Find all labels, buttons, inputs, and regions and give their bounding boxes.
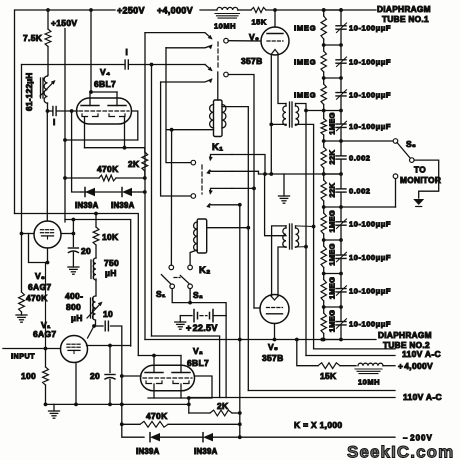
svg-text:+ 22.5V: + 22.5V bbox=[186, 323, 218, 333]
arrowhead contact A arm bbox=[208, 35, 213, 40]
wire cap10 to V2 grid column bbox=[111, 326, 122, 404]
transformer T1 core bbox=[289, 102, 291, 127]
svg-text:357B: 357B bbox=[241, 56, 263, 66]
svg-text:470K: 470K bbox=[146, 411, 168, 421]
resistor 2K (V4 cathode) bbox=[144, 148, 146, 152]
capacitor chain C3 10-100&#956;&#956;F bbox=[340, 78, 342, 92]
capacitor 20 (V1 plate) bbox=[109, 346, 111, 373]
wire T2 primary top wrap bbox=[272, 226, 286, 296]
svg-text:400-: 400- bbox=[65, 291, 83, 301]
tube V6 cathode notch bbox=[271, 50, 279, 55]
wire S1 bottom wrap bbox=[172, 289, 190, 303]
svg-text:15K: 15K bbox=[320, 371, 337, 381]
capacitor chain C7 10-100&#956;&#956;F bbox=[340, 207, 342, 222]
wire V2 plate leads bbox=[153, 356, 155, 373]
wire bottom row y=404.4 bbox=[46, 403, 189, 405]
wire K1 left lead bbox=[166, 129, 213, 131]
resistor chain R9 1MEG bbox=[323, 274, 325, 280]
node 470K right bbox=[238, 422, 242, 426]
wire 110V A-C first pair bbox=[314, 348, 395, 350]
wire V3 grid row left bbox=[22, 233, 35, 235]
wire cap to V4 grid bbox=[57, 110, 78, 112]
ground V1 bottom bbox=[53, 404, 55, 411]
wire K2 right lead bbox=[207, 227, 249, 229]
svg-text:1MEG: 1MEG bbox=[328, 112, 337, 134]
battery cell 1 bbox=[193, 310, 195, 322]
ground below 470K bbox=[21, 312, 23, 315]
svg-text:+150V: +150V bbox=[51, 18, 77, 28]
node INPUT grid bbox=[44, 347, 48, 351]
wire y=219.5 from +150V end to V1 plate riser bbox=[65, 220, 131, 347]
tube V5 bar bbox=[267, 313, 283, 315]
relay K1 winding bumps right bbox=[222, 105, 226, 128]
tube V6 plate bar bbox=[267, 33, 283, 35]
arrow of 400-800uH bbox=[87, 303, 101, 318]
monitor tap circle bbox=[393, 174, 398, 179]
svg-text:SeekIC.com: SeekIC.com bbox=[347, 443, 454, 460]
svg-text:61-122µH: 61-122µH bbox=[25, 72, 34, 111]
svg-text:+ 4,000V: + 4,000V bbox=[398, 361, 433, 371]
relay K1 winding bumps left bbox=[210, 105, 214, 128]
transformer T2 left winding bbox=[285, 226, 287, 228]
wire to cap 10 bbox=[94, 325, 103, 327]
wire -200V rail bbox=[122, 424, 144, 437]
svg-text:IMEG: IMEG bbox=[294, 90, 316, 99]
svg-text:1MEG: 1MEG bbox=[328, 277, 337, 299]
resistor chain R2 IMEG bbox=[323, 45, 325, 51]
svg-text:TUBE NO.1: TUBE NO.1 bbox=[382, 14, 429, 24]
wire INPUT bbox=[3, 348, 61, 350]
nodes on bottom rung rail bbox=[238, 338, 242, 342]
tube V4 right triode bbox=[108, 105, 126, 107]
wire T2 center tap from rung bbox=[265, 174, 286, 236]
inductor 10MH bbox=[217, 7, 238, 10]
wire S-node to battery column bbox=[190, 303, 226, 316]
svg-text:– 200V: – 200V bbox=[403, 434, 433, 443]
ground below V3 plate cap bbox=[72, 253, 74, 268]
wire D4 to right bbox=[213, 436, 395, 438]
tube V5 grid dashed bbox=[267, 307, 283, 309]
wire top-left box horizontal y=64.5 bbox=[22, 64, 125, 66]
resistor chain R10 1MEG bbox=[323, 307, 325, 313]
resistor chain R4 1MEG bbox=[323, 111, 325, 119]
contact B arm from y=64.5 wire bbox=[205, 65, 212, 71]
resistor chain R1 IMEG bbox=[323, 10, 325, 16]
wire V2 grid row bbox=[122, 375, 141, 377]
wire x=226.1 continues to 2K row bbox=[225, 316, 227, 398]
wire rung7 to monitor tap bbox=[341, 206, 396, 208]
wire T1 secondary bottom to x=313.6 bbox=[296, 124, 314, 349]
capacitor 10 bbox=[104, 321, 106, 331]
wire 10MH2 to label bbox=[383, 365, 395, 367]
wire chain rung y=141 bbox=[324, 140, 341, 142]
node x=151.5 on y=64.5 wire bbox=[150, 63, 154, 67]
tube V6 plate lead bbox=[274, 10, 276, 27]
svg-text:DIAPHRAGM: DIAPHRAGM bbox=[378, 330, 432, 340]
svg-text:IMEG: IMEG bbox=[294, 58, 316, 67]
tube V4 grid dashed line bbox=[79, 110, 129, 112]
node rung/V6 lead bbox=[269, 172, 273, 176]
svg-text:6BL7: 6BL7 bbox=[94, 79, 116, 89]
diode D1 IN39A bbox=[81, 191, 86, 193]
wire V4 cathode row y=147.7 bbox=[85, 147, 145, 149]
tube V2 grid dashed line bbox=[143, 377, 192, 379]
svg-text:100: 100 bbox=[21, 371, 36, 381]
svg-text:10-100μμF: 10-100μμF bbox=[349, 24, 391, 33]
node K2 on x=248.3 bbox=[246, 226, 250, 230]
resistor 100 (input) bbox=[43, 367, 49, 385]
contact C fixed circle bbox=[191, 160, 196, 165]
resistor 15K bbox=[251, 7, 266, 12]
node S1 riser on K1 left lead bbox=[170, 128, 174, 132]
svg-text:I: I bbox=[53, 118, 56, 127]
wire monitor tap riser bbox=[395, 179, 397, 208]
capacitor chain C9 10-100&#956;&#956;F bbox=[340, 274, 342, 289]
wire +4000V rail start bbox=[200, 9, 217, 11]
wire T2 secondary top tap bbox=[296, 225, 314, 228]
wire link to K1 coil bbox=[217, 72, 219, 100]
capacitor chain C4 10-100&#956;&#956;F bbox=[340, 111, 342, 124]
node V3 plate bbox=[72, 232, 76, 236]
wire V1 cathode drop bbox=[75, 363, 77, 405]
resistor R 7.5K bbox=[47, 10, 49, 29]
svg-text:IMEG: IMEG bbox=[294, 24, 316, 33]
capacitor chain C1 10-100&#956;&#956;F bbox=[340, 10, 342, 26]
tube V2 6BL7 envelope bbox=[141, 365, 195, 391]
svg-text:K₂: K₂ bbox=[199, 265, 211, 276]
tube V6 357B envelope bbox=[261, 27, 289, 55]
svg-text:10MH: 10MH bbox=[358, 378, 380, 387]
diode D3 IN39A bbox=[150, 433, 160, 441]
wire left border vertical bbox=[14, 10, 16, 214]
svg-text:2K: 2K bbox=[128, 159, 140, 169]
svg-text:10-100μμF: 10-100μμF bbox=[349, 122, 391, 131]
node V2 plate join bbox=[152, 354, 156, 358]
node rung4 extension bbox=[304, 109, 308, 113]
svg-text:S₃: S₃ bbox=[406, 139, 416, 149]
svg-text:22K: 22K bbox=[328, 183, 337, 198]
wire contact-A vertical x=145 bbox=[144, 33, 146, 340]
node contact C arm column bbox=[263, 172, 267, 176]
svg-text:7.5K: 7.5K bbox=[23, 33, 43, 43]
battery link dashes bbox=[200, 315, 207, 317]
svg-text:470K: 470K bbox=[26, 293, 48, 303]
svg-text:6BL7: 6BL7 bbox=[187, 358, 209, 368]
wire chain rung y=45 bbox=[324, 44, 341, 46]
svg-text:IN39A: IN39A bbox=[136, 447, 160, 456]
svg-text:10-100μμF: 10-100μμF bbox=[349, 90, 391, 99]
tube V6 grid dashed bbox=[267, 40, 283, 42]
svg-text:V₆: V₆ bbox=[249, 32, 259, 42]
wire chain rung y=110.5 bbox=[324, 110, 341, 112]
capacitor C1 (I) bbox=[48, 110, 53, 112]
transformer T2 core bbox=[289, 224, 291, 249]
contact D arm bbox=[211, 188, 233, 193]
svg-text:INPUT: INPUT bbox=[11, 352, 35, 361]
resistor 2K (V2) bbox=[189, 412, 210, 414]
wire contact C arm to right column bbox=[232, 155, 265, 175]
tube V3 6AG7 envelope bbox=[34, 221, 61, 248]
tube V2 left triode bbox=[145, 372, 163, 374]
wire contact D arm to V5 column node bbox=[232, 187, 254, 189]
svg-text:IN39A: IN39A bbox=[194, 447, 218, 456]
capacitor chain C6 0.002 bbox=[340, 174, 342, 189]
resistor chain R7 1MEG bbox=[323, 207, 325, 213]
wire S1 riser up bbox=[170, 130, 172, 265]
transformer T1 left winding bbox=[285, 104, 287, 107]
contact A NC arrow bbox=[208, 45, 213, 50]
node T2 sec bottom on x=306 bbox=[304, 245, 308, 249]
capacitor chain C2 10-100&#956;&#956;F bbox=[340, 45, 342, 60]
resistor chain R6 22K bbox=[323, 174, 325, 180]
relay K2 winding bumps bbox=[194, 222, 198, 251]
wire V4 plate-supply row y=140 bbox=[65, 139, 138, 141]
svg-text:1MEG: 1MEG bbox=[328, 310, 337, 332]
node V6 plate feed bbox=[273, 8, 277, 12]
wire V4 right lead bbox=[132, 111, 138, 140]
wire chain rung y=273.5 bbox=[324, 273, 341, 275]
wire K2 bottom-left lead to S2 bbox=[190, 250, 197, 265]
resistor chain R8 1MEG bbox=[323, 240, 325, 246]
arrow of variable inductor L1 bbox=[40, 82, 54, 97]
node chain top resistor column bbox=[322, 8, 326, 12]
wire V5 bottom lead bbox=[274, 324, 276, 340]
resistor 10K bbox=[95, 214, 97, 228]
svg-text:22K: 22K bbox=[328, 150, 337, 165]
svg-text:S₂: S₂ bbox=[193, 290, 203, 300]
svg-text:µH: µH bbox=[71, 313, 83, 323]
tube V3 innards bbox=[40, 229, 43, 231]
contact B fixed circle bbox=[224, 72, 229, 77]
svg-text:DIAPHRAGM: DIAPHRAGM bbox=[377, 4, 431, 14]
node V2 cathode bbox=[187, 396, 191, 400]
contact D fixed circle bbox=[191, 194, 196, 199]
wire relay contact A feed bbox=[145, 33, 212, 39]
svg-text:V₅: V₅ bbox=[268, 342, 278, 352]
wire x=239.8 column lower bbox=[239, 340, 241, 438]
wire inductor bottom node bbox=[95, 321, 97, 326]
capacitor 20 (V3) bbox=[68, 247, 78, 249]
wire x=160.6 down to contact D bbox=[161, 82, 191, 196]
svg-text:10-100μμF: 10-100μμF bbox=[349, 253, 391, 262]
wire rung4 extension bbox=[306, 110, 324, 112]
transformer T1 right winding bbox=[295, 104, 297, 107]
svg-text:IN39A: IN39A bbox=[75, 201, 99, 210]
switch S1 lower contact bbox=[170, 284, 175, 289]
node T1 primary bottom bbox=[269, 123, 273, 127]
node V4 grid node bbox=[46, 109, 50, 113]
svg-text:750: 750 bbox=[104, 258, 119, 268]
node diode row / contact-A line bbox=[143, 190, 147, 194]
dashed link contacts C-D bbox=[201, 165, 203, 194]
wire V3 cathode box bbox=[29, 234, 48, 263]
wire 110V A-C second pair bottom bbox=[190, 397, 395, 399]
svg-text:10: 10 bbox=[103, 309, 113, 319]
svg-text:µH: µH bbox=[105, 268, 117, 278]
svg-text:V₄: V₄ bbox=[100, 67, 110, 77]
tube V1 innards bbox=[67, 343, 70, 345]
svg-text:110V A-C: 110V A-C bbox=[403, 392, 442, 402]
svg-text:470K: 470K bbox=[97, 164, 119, 174]
diode D2 IN39A bbox=[122, 188, 132, 196]
switch S1 upper contact bbox=[169, 265, 174, 270]
svg-text:15K: 15K bbox=[252, 18, 267, 27]
switch S3 blade bbox=[397, 143, 411, 159]
node V2 grid on x=121.8 bbox=[120, 374, 124, 378]
battery cell 2 bbox=[209, 313, 211, 319]
node junction on +250V rail bbox=[46, 8, 50, 12]
svg-text:357B: 357B bbox=[262, 353, 284, 363]
svg-text:K₁: K₁ bbox=[212, 142, 223, 153]
wire 110V A-C second pair top bbox=[248, 390, 395, 392]
wire ground rung y=174 bbox=[259, 173, 342, 175]
node +150V to V4 row bbox=[63, 138, 67, 142]
wire +4000V second feed bbox=[297, 340, 318, 366]
wire x=166 down to contact C bbox=[166, 48, 191, 163]
wire x=151.5 vertical bbox=[151, 65, 153, 337]
inductor 10MH (2) bbox=[358, 363, 383, 365]
node on bottom row404 bbox=[187, 403, 191, 407]
tube V5 357B envelope bbox=[260, 295, 289, 324]
wire V4 plate leads to +250V bbox=[89, 92, 91, 106]
wire x=151.5 lower jog to inner rail bbox=[152, 336, 220, 398]
node T2 sec top on x=313.6 bbox=[312, 225, 316, 229]
wire S3 to monitor bbox=[414, 160, 439, 198]
wire left vertical x=21.5 bbox=[21, 65, 23, 293]
wire V2 cathode bottom bbox=[148, 397, 189, 399]
svg-text:+250V: +250V bbox=[117, 6, 145, 16]
node -200V column bbox=[238, 435, 242, 439]
wire +250V rail bbox=[15, 9, 115, 11]
tube V2 right triode bbox=[172, 372, 190, 374]
svg-text:V₂: V₂ bbox=[193, 346, 203, 356]
svg-text:1MEG: 1MEG bbox=[328, 243, 337, 265]
ground on rung bbox=[283, 174, 285, 196]
tube V5 top notch bbox=[271, 296, 279, 301]
wire chain rung y=10 bbox=[324, 9, 341, 11]
wire V3 plate stub right bbox=[61, 233, 73, 235]
ground battery bbox=[179, 316, 181, 322]
wire T2 primary bottom to V5 bbox=[278, 247, 286, 297]
node V5 cathode on bottom rung bbox=[273, 338, 277, 342]
wire 7.5K to inductor bbox=[47, 47, 49, 76]
wire long rail y=213.5 from left border bbox=[15, 214, 139, 356]
contact B NC arrow bbox=[208, 78, 213, 83]
wire T2 secondary bottom tap bbox=[296, 246, 307, 248]
wire V2 cathode drops bbox=[153, 384, 155, 398]
svg-text:2K: 2K bbox=[217, 401, 229, 411]
wire battery to S-node column bbox=[213, 315, 226, 317]
tube V1 6AG7 envelope bbox=[61, 336, 88, 363]
svg-text:10-100μμF: 10-100μμF bbox=[349, 286, 391, 295]
inductor 750uH bbox=[95, 245, 97, 258]
svg-text:20: 20 bbox=[90, 371, 100, 381]
wire x=239.8 long vertical to bottom rails bbox=[239, 205, 241, 340]
svg-text:6AG7: 6AG7 bbox=[33, 329, 56, 339]
svg-text:110V A-C: 110V A-C bbox=[402, 349, 441, 359]
wire T1 secondary top to x=306 bbox=[296, 104, 307, 356]
node V3 grid on x=21.5 bbox=[20, 232, 24, 236]
node 2K to -200V column bbox=[238, 411, 242, 415]
wire T1 primary bottom link bbox=[271, 123, 286, 125]
capacitor chain C8 10-100&#956;&#956;F bbox=[340, 240, 342, 255]
wire diode to 2K bottom node bbox=[132, 191, 145, 193]
switch S1 blade bbox=[161, 275, 170, 284]
resistor chain R3 IMEG bbox=[323, 78, 325, 84]
wire V4-grid to V3 top bbox=[46, 111, 48, 221]
relay K1 coil box bbox=[214, 100, 223, 137]
ground monitor bbox=[413, 199, 424, 205]
contact A fixed circle bbox=[224, 38, 229, 43]
svg-text:+4,000V: +4,000V bbox=[157, 6, 193, 16]
wire chain rung y=174 bbox=[324, 173, 341, 175]
wire chain rung y=207 bbox=[324, 206, 341, 208]
capacitor chain C10 10-100&#956;&#956;F bbox=[340, 307, 342, 321]
svg-text:800: 800 bbox=[66, 302, 81, 312]
svg-text:TO: TO bbox=[414, 165, 426, 175]
wire rung5 to S3 bbox=[341, 140, 394, 142]
switch S2 lower contact bbox=[188, 284, 193, 289]
resistor 470K (V3 grid leak) bbox=[19, 292, 25, 312]
svg-text:0.002: 0.002 bbox=[349, 187, 371, 196]
wire bottom rung rail to diaphragm2 bbox=[145, 339, 376, 341]
capacitor chain C5 0.002 bbox=[340, 141, 342, 156]
wire 15K2 to 10MH2 bbox=[340, 365, 356, 367]
svg-text:V₃: V₃ bbox=[35, 271, 45, 281]
node 10K chain top on rail bbox=[94, 212, 98, 216]
wire V6 bottom-right lead to T1 primary top bbox=[278, 54, 286, 104]
resistor chain R5 22K bbox=[323, 141, 325, 147]
switch S3 pole circle bbox=[393, 139, 398, 144]
wire K1 right lead to long vertical bbox=[222, 107, 248, 391]
wire inductor to node bbox=[47, 103, 49, 111]
wire contact B to V5 column bbox=[228, 75, 254, 309]
wire V2 right lead wrap bbox=[189, 376, 212, 398]
wire contact C NC to rung extension bbox=[232, 171, 259, 174]
resistor 15K (2) bbox=[318, 363, 340, 369]
wire between D3 D4 bbox=[160, 436, 203, 438]
wire V3 cathode drop to INPUT row bbox=[47, 248, 49, 263]
svg-text:0.002: 0.002 bbox=[349, 154, 371, 163]
wire V5 left lead bbox=[254, 307, 260, 309]
svg-text:S₁: S₁ bbox=[156, 289, 166, 299]
wire contact A to V6 grid bbox=[228, 40, 261, 42]
switch S2 upper contact bbox=[188, 265, 193, 270]
svg-text:10-100μμF: 10-100μμF bbox=[349, 58, 391, 67]
mech link dash S1-S2 bbox=[174, 277, 180, 279]
dashed link contacts A-B bbox=[217, 42, 219, 70]
wire V1 grid-cap stub bbox=[88, 326, 95, 338]
diode D4 IN39A bbox=[203, 433, 213, 441]
wire 15K to chain bbox=[266, 9, 376, 11]
node contact D NC on x=239.8 bbox=[238, 203, 242, 207]
relay K2 coil box bbox=[197, 219, 207, 253]
svg-text:10MH: 10MH bbox=[214, 22, 236, 31]
svg-text:IN39A: IN39A bbox=[111, 201, 135, 210]
node V3 plate feed on y=219.5 bbox=[72, 218, 76, 222]
svg-text:I: I bbox=[126, 48, 129, 57]
wire S2 bottom bbox=[189, 289, 191, 303]
node plate row to cap20 bbox=[108, 344, 112, 348]
svg-text:MONITOR: MONITOR bbox=[400, 175, 441, 185]
node row178 ends bbox=[63, 176, 67, 180]
wire V3 plate feed vertical bbox=[72, 220, 74, 247]
wire +150V line bbox=[64, 29, 66, 223]
node +150V tap on V4 grid wire bbox=[70, 109, 74, 113]
wire chain rung y=78 bbox=[324, 77, 341, 79]
switch S3 throw circle bbox=[410, 158, 415, 163]
capacitor C2 (I) in y=64.5 wire bbox=[124, 60, 126, 69]
